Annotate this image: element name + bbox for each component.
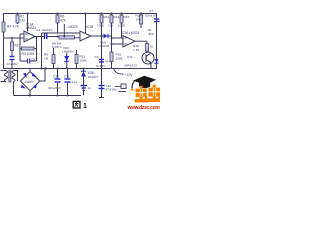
- tassel: [132, 81, 134, 88]
- svg-text:IC3A LM324: IC3A LM324: [121, 31, 139, 35]
- svg-text:C2 10u/16V: C2 10u/16V: [37, 28, 53, 32]
- wire ground line: [14, 95, 82, 97]
- connector J1: [115, 84, 126, 92]
- relay RL text: [148, 28, 155, 36]
- graduation cap board: [133, 76, 156, 85]
- svg-text:1M: 1M: [20, 19, 25, 23]
- wire left edge: [3, 14, 5, 69]
- wire upper input IC1B: [42, 32, 81, 34]
- resistor R1: [16, 14, 25, 25]
- svg-text:R15: R15: [124, 15, 130, 19]
- svg-text:R4 4.7K: R4 4.7K: [7, 25, 20, 29]
- capacitor C11: [64, 69, 78, 96]
- capacitor C12: [99, 69, 117, 98]
- svg-text:C11: C11: [64, 75, 70, 79]
- capacitor C4: [20, 58, 37, 64]
- svg-text:47u: 47u: [105, 60, 110, 64]
- wire bridge output: [40, 69, 45, 82]
- wire bridge top stub: [29, 69, 31, 72]
- transistor VT1: [125, 52, 155, 68]
- svg-text:R14: R14: [114, 15, 120, 19]
- resistor R13: [75, 50, 88, 68]
- svg-text:JRC: JRC: [148, 32, 155, 36]
- wire IC1B output: [91, 35, 104, 37]
- wire C2 to R8: [47, 36, 59, 38]
- watermark logo: [127, 76, 161, 111]
- resistor R3: [20, 47, 37, 56]
- svg-text:C9: C9: [95, 55, 99, 59]
- resistor R4: [2, 22, 20, 32]
- graduation cap crown: [139, 83, 150, 88]
- wire IC1A lower input from edge: [4, 37, 25, 39]
- diode VD8: [81, 69, 99, 96]
- svg-text:100K: 100K: [116, 57, 124, 61]
- resistor R8: [52, 36, 75, 49]
- wire top rail: [3, 13, 157, 15]
- resistor R18: [133, 41, 154, 53]
- svg-text:100K: 100K: [118, 24, 126, 28]
- svg-text:10K: 10K: [108, 24, 114, 28]
- resistor R17: [136, 14, 143, 29]
- capacitor C10: [48, 69, 61, 96]
- resistor R15: [118, 14, 129, 39]
- diode VD6: [155, 59, 159, 63]
- capacitor C1: [7, 57, 18, 69]
- svg-text:C7: C7: [149, 9, 153, 13]
- resistor R12: [97, 14, 109, 37]
- svg-text:LM324: LM324: [68, 25, 78, 29]
- svg-text:C10: C10: [53, 75, 59, 79]
- svg-text:U=12V: U=12V: [96, 64, 105, 68]
- wire IC1A feedback loop: [20, 34, 37, 61]
- capacitor C2: [37, 28, 53, 39]
- svg-text:1u: 1u: [88, 86, 92, 90]
- svg-text:IC1B: IC1B: [86, 25, 94, 29]
- svg-text:VT1: VT1: [127, 55, 133, 59]
- char chong 2: [148, 85, 160, 102]
- svg-text:C4: C4: [32, 58, 36, 62]
- op-amp IC3A: [121, 31, 139, 47]
- svg-text:1: 1: [83, 103, 87, 110]
- wire right edge: [156, 14, 158, 69]
- svg-text:1N4007: 1N4007: [25, 81, 34, 84]
- diode VD4: [62, 46, 73, 68]
- resistor R14: [108, 14, 119, 45]
- caption 图1 (drawn glyph): [73, 101, 87, 110]
- wire IC1A output: [35, 36, 44, 38]
- svg-text:1.4K: 1.4K: [133, 48, 140, 52]
- svg-text:10u/16V: 10u/16V: [7, 62, 18, 66]
- transformer T1: [1, 70, 18, 96]
- diode VD5: [98, 34, 109, 48]
- op-amp IC1A: [24, 22, 36, 42]
- wire bottom rail: [3, 68, 157, 70]
- capacitor C9: [95, 36, 111, 68]
- wire R8 to IC1B: [75, 37, 81, 39]
- junction dots: [11, 13, 142, 97]
- wire lower input IC3A: [112, 43, 124, 45]
- resistor R6: [56, 14, 67, 34]
- svg-text:200u/16V: 200u/16V: [145, 14, 157, 18]
- op-amp IC1B: [68, 25, 95, 41]
- svg-text:47K: 47K: [60, 19, 67, 23]
- wire IC1A power pin: [27, 14, 29, 32]
- svg-text:MPSA13: MPSA13: [125, 64, 137, 68]
- capacitor C3: [63, 24, 65, 37]
- svg-text:R2: R2: [15, 44, 19, 48]
- svg-text:R12: R12: [104, 15, 110, 19]
- svg-text:1N4007: 1N4007: [88, 75, 99, 79]
- svg-text:10K: 10K: [136, 18, 142, 22]
- capacitor C7: [145, 9, 160, 22]
- svg-text:0.1u: 0.1u: [72, 80, 78, 84]
- svg-text:100K: 100K: [80, 59, 88, 63]
- svg-text:R3 100K: R3 100K: [22, 52, 36, 56]
- wire VD5 to IC3A: [108, 36, 123, 38]
- wire IC3A output: [135, 40, 147, 42]
- svg-text:100K: 100K: [97, 24, 105, 28]
- bridge rectifier VD7-VD10: [20, 72, 39, 91]
- svg-text:1M: 1M: [44, 57, 49, 61]
- svg-text:400u/25V: 400u/25V: [48, 86, 61, 90]
- svg-text:+12V: +12V: [125, 73, 134, 77]
- resistor R16: [110, 44, 124, 68]
- wire vertical x41: [41, 33, 43, 68]
- wire bridge bottom: [29, 91, 31, 96]
- svg-text:1N4148: 1N4148: [62, 50, 73, 54]
- wire +12V tap: [114, 69, 134, 78]
- wire IC1B bias from rail: [85, 14, 87, 34]
- svg-text:www.dzsc.com: www.dzsc.com: [127, 105, 161, 110]
- resistor R9: [44, 48, 55, 68]
- svg-text:1N4148: 1N4148: [98, 44, 109, 48]
- resistor R2: [11, 38, 19, 56]
- char chong 1: [135, 86, 148, 103]
- svg-text:47u/16V: 47u/16V: [106, 88, 117, 92]
